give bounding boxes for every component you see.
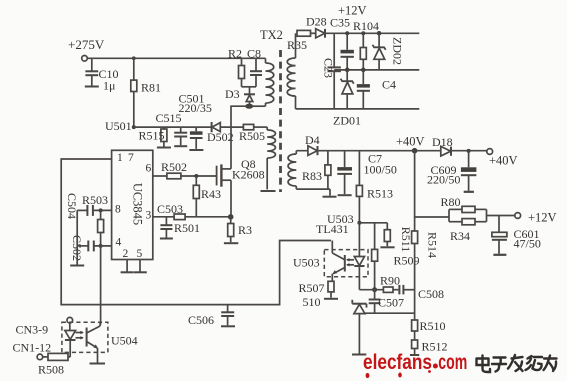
svg-text:ZD01: ZD01 <box>333 114 361 128</box>
capacitor C7 100/50 <box>337 151 397 196</box>
node R90 junction <box>372 287 377 292</box>
resistor R34 <box>449 209 487 243</box>
svg-text:D502: D502 <box>207 130 234 144</box>
op-amp U501 UC3845 <box>112 150 153 260</box>
capacitor C4 <box>357 68 396 109</box>
capacitor C501 220/35 <box>179 92 212 151</box>
wire C504 C502 bus to ground <box>70 210 84 265</box>
wire 40V rail <box>296 150 487 152</box>
wire 40V winding bottom <box>296 189 336 197</box>
svg-text:C35: C35 <box>330 16 350 30</box>
resistor R505 <box>239 124 267 143</box>
svg-text:6: 6 <box>146 163 152 175</box>
terminal +40V <box>487 149 518 168</box>
svg-text:R3: R3 <box>238 223 252 237</box>
svg-text:7: 7 <box>128 152 134 164</box>
svg-text:elecfans: elecfans <box>363 351 432 374</box>
wire R503 to U504 collector <box>100 246 102 325</box>
resistor R510 <box>412 319 446 340</box>
wire D3 to drain <box>231 106 247 169</box>
svg-text:U501: U501 <box>105 119 132 133</box>
svg-text:UC3845: UC3845 <box>131 183 145 225</box>
svg-text:D28: D28 <box>306 15 327 29</box>
resistor R502 <box>153 160 217 179</box>
wire to R80 <box>415 216 449 218</box>
LED U504 <box>65 323 76 357</box>
svg-text:U503: U503 <box>293 256 320 270</box>
svg-text:R81: R81 <box>141 81 161 95</box>
capacitor C23 <box>322 33 341 109</box>
svg-text:R505: R505 <box>239 129 265 143</box>
svg-text:2: 2 <box>123 248 129 260</box>
resistor R43 <box>193 174 221 217</box>
wire Vcc <box>134 126 212 128</box>
svg-text:C8: C8 <box>247 47 261 61</box>
svg-text:R513: R513 <box>367 187 393 201</box>
svg-text:3: 3 <box>146 210 152 222</box>
wire pin2 ground <box>121 260 134 273</box>
svg-text:+40V: +40V <box>489 154 518 168</box>
resistor R508 <box>38 353 70 376</box>
svg-text:C508: C508 <box>418 287 444 301</box>
svg-text:+40V: +40V <box>396 135 425 149</box>
wire 12V bottom rail <box>296 108 420 110</box>
resistor R511 <box>380 223 413 252</box>
resistor R3 <box>224 217 252 243</box>
terminal CN1-12 <box>13 341 52 360</box>
transistor U503 phototransistor <box>332 241 345 282</box>
transformer TX2 40V secondary winding <box>288 151 296 189</box>
svg-text:D18: D18 <box>432 135 453 149</box>
zener ZD02 <box>373 31 405 70</box>
svg-text:R83: R83 <box>302 169 322 183</box>
optocoupler U503 <box>293 250 368 277</box>
resistor R501 <box>174 214 231 235</box>
diode D28 <box>306 15 419 38</box>
svg-text:CN3-9: CN3-9 <box>16 323 49 337</box>
svg-text:100/50: 100/50 <box>364 163 397 177</box>
svg-text:U504: U504 <box>111 334 138 348</box>
svg-text:+12V: +12V <box>528 211 557 225</box>
svg-text:com: com <box>438 351 467 374</box>
capacitor C609 220/50 <box>427 149 476 192</box>
terminal CN3-9 <box>16 317 73 336</box>
svg-text:R510: R510 <box>420 319 446 333</box>
svg-text:R80: R80 <box>441 195 461 209</box>
svg-text:D3: D3 <box>225 87 240 101</box>
svg-text:R508: R508 <box>38 363 64 377</box>
resistor R35 <box>287 30 316 52</box>
diode D3 <box>225 87 255 104</box>
svg-text:R509: R509 <box>394 254 420 268</box>
node Vcc junction <box>132 125 136 129</box>
wire pin5 ground <box>134 260 147 273</box>
svg-text:C506: C506 <box>188 313 214 327</box>
wire +40V down line <box>414 151 416 231</box>
svg-text:R507: R507 <box>299 281 325 295</box>
resistor R515 <box>139 127 171 147</box>
svg-text:R104: R104 <box>353 19 379 33</box>
svg-text:D4: D4 <box>305 133 320 147</box>
resistor R507 510 <box>299 281 339 309</box>
resistor R512 <box>410 340 448 356</box>
svg-text:R34: R34 <box>450 229 470 243</box>
diode D18 <box>432 135 453 156</box>
resistor R514 <box>412 231 440 258</box>
wire pin3 sense <box>153 216 174 218</box>
capacitor C8 <box>247 47 262 87</box>
svg-text:ZD02: ZD02 <box>391 37 405 65</box>
wire +275V rail <box>87 57 265 59</box>
capacitor C10 1u <box>85 58 119 92</box>
resistor R81 <box>131 56 161 127</box>
capacitor C506 <box>188 305 235 327</box>
resistor R104 <box>353 19 379 70</box>
LED U503 <box>354 252 364 290</box>
transistor U504 phototransistor <box>87 322 105 363</box>
resistor R2 <box>228 47 245 87</box>
svg-text:C507: C507 <box>378 296 404 310</box>
resistor R90 <box>359 274 400 293</box>
capacitor C503 <box>157 202 183 239</box>
resistor R83 <box>302 151 331 189</box>
wire 12V mid rail <box>334 69 419 71</box>
svg-text:TX2: TX2 <box>260 28 283 42</box>
resistor R80 <box>441 195 487 222</box>
wire TL431 ref <box>365 312 415 314</box>
capacitor C515 <box>156 111 188 146</box>
svg-text:R503: R503 <box>82 193 108 207</box>
resistor R509 <box>372 223 420 290</box>
node D3 junction <box>245 104 253 109</box>
svg-text:R502: R502 <box>161 160 187 174</box>
optocoupler U504 <box>62 322 138 352</box>
wire R509 branch <box>357 221 387 225</box>
svg-text:R501: R501 <box>174 221 200 235</box>
svg-text:C23: C23 <box>322 58 336 78</box>
shunt reg TL431 <box>352 300 367 355</box>
svg-text:R35: R35 <box>287 38 307 52</box>
svg-text:R514: R514 <box>426 232 440 258</box>
MOSFET Q8 K2608 <box>217 157 265 217</box>
svg-text:47/50: 47/50 <box>514 237 541 251</box>
node Q8 source junction <box>228 214 234 220</box>
svg-text:220/50: 220/50 <box>427 173 460 187</box>
capacitor C507 <box>369 290 404 314</box>
label U503 TL431 <box>316 212 354 236</box>
svg-text:220/35: 220/35 <box>179 101 212 115</box>
svg-text:R90: R90 <box>380 274 400 288</box>
resistor R503 <box>82 193 108 248</box>
node +40V junction <box>396 135 425 154</box>
transformer TX2 aux winding <box>261 127 276 191</box>
svg-text:R43: R43 <box>201 187 221 201</box>
svg-text:5: 5 <box>137 248 143 260</box>
capacitor C35 <box>330 16 354 70</box>
svg-text:1: 1 <box>117 152 123 164</box>
svg-text:TL431: TL431 <box>316 222 349 236</box>
transformer TX2 primary winding <box>252 58 274 106</box>
svg-text:510: 510 <box>303 295 321 309</box>
wire snubber bottom <box>242 87 257 95</box>
svg-text:CN1-12: CN1-12 <box>13 341 52 355</box>
zener ZD01 <box>333 68 361 128</box>
capacitor C504 <box>65 193 112 219</box>
svg-text:4: 4 <box>116 237 122 249</box>
svg-text:+275V: +275V <box>68 37 105 52</box>
svg-text:C4: C4 <box>382 78 396 92</box>
watermark chinese characters <box>477 355 557 372</box>
svg-text:R2: R2 <box>228 47 242 61</box>
resistor R513 <box>356 151 393 252</box>
capacitor C508 <box>399 285 444 301</box>
svg-text:R515: R515 <box>139 129 165 143</box>
capacitor C601 47/50 <box>492 216 541 255</box>
svg-text:C503: C503 <box>157 202 183 216</box>
svg-text:K2608: K2608 <box>232 168 265 182</box>
watermark elecfans.com <box>363 351 467 378</box>
diode D502 <box>207 122 243 144</box>
wire right divider line <box>414 231 416 320</box>
svg-text:8: 8 <box>115 204 121 216</box>
capacitor C502 <box>70 235 112 261</box>
transformer TX2 12V secondary winding <box>287 33 295 109</box>
svg-text:1μ: 1μ <box>103 79 115 93</box>
terminal +275V <box>68 37 105 61</box>
terminal +12V <box>487 211 557 225</box>
arrows U503 <box>346 258 354 266</box>
arrows U504 <box>76 331 84 340</box>
diode D4 <box>305 133 320 155</box>
wire feedback loop <box>61 159 331 305</box>
transformer TX2 core <box>260 28 283 192</box>
